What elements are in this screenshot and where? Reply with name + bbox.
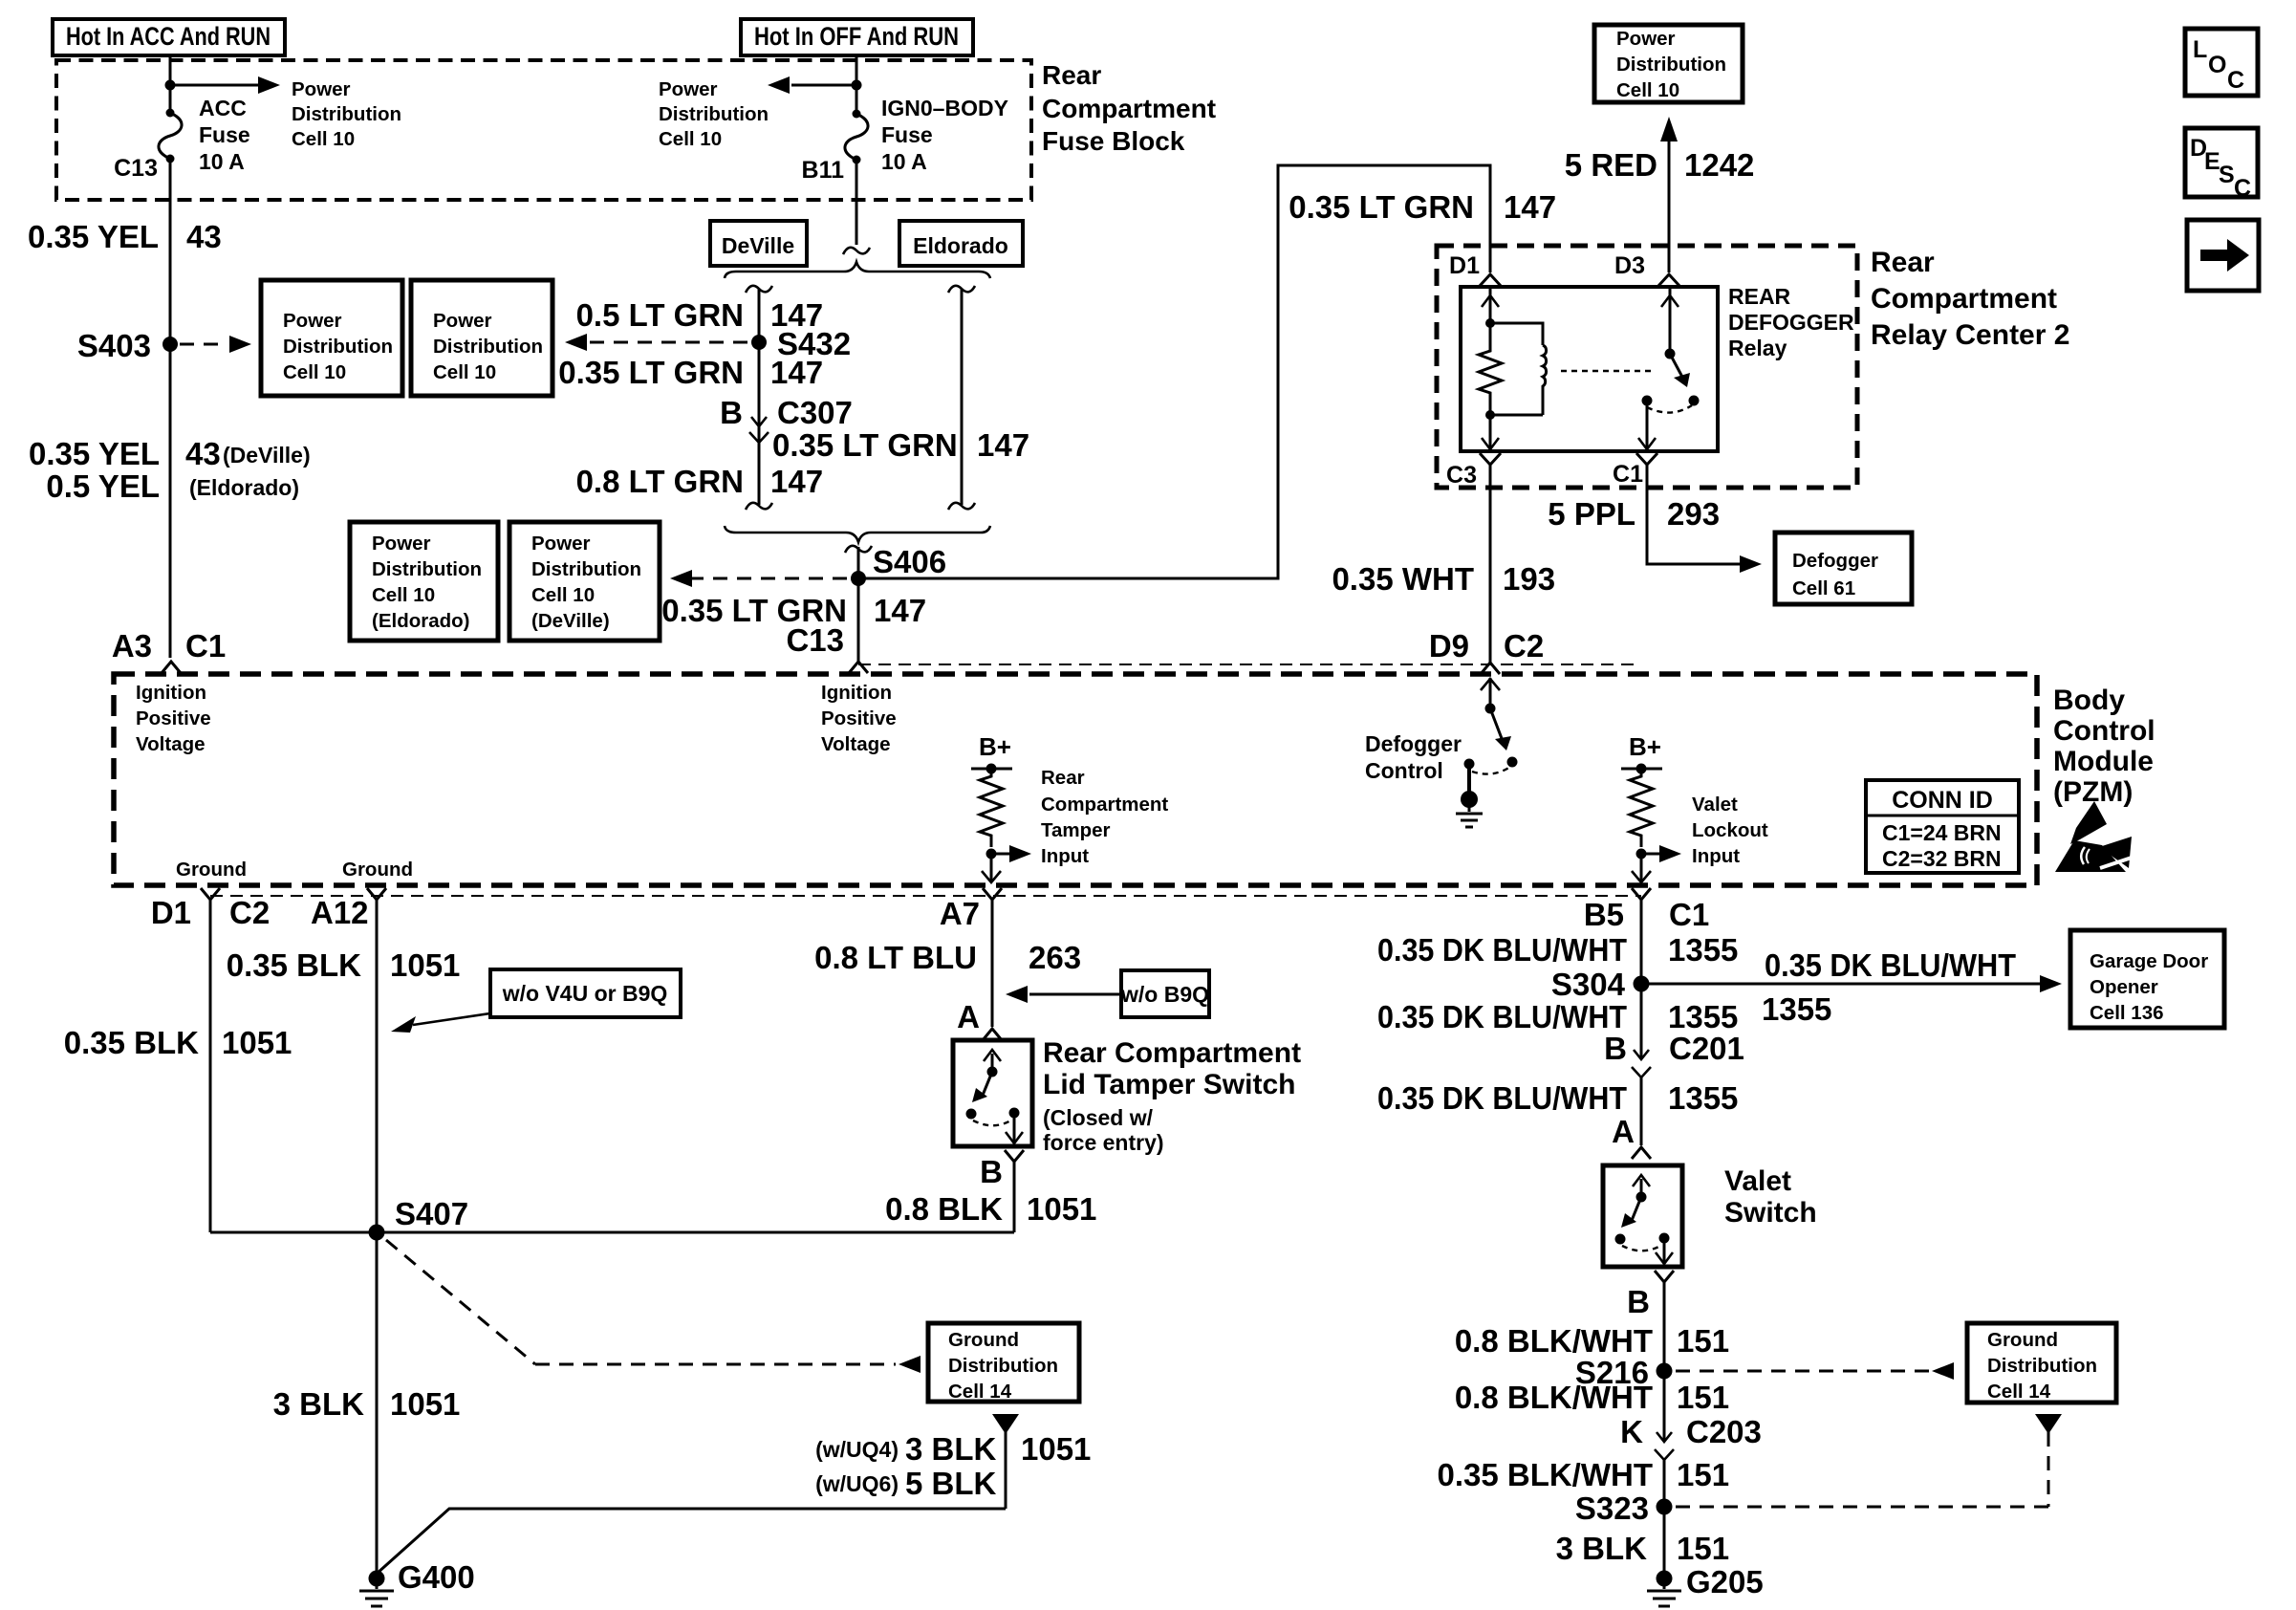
- forward arrow legend box: [2187, 220, 2259, 291]
- reference box: Ground Distribution Cell 14 (right): [1967, 1323, 2116, 1403]
- label box: DeVille: [710, 221, 807, 266]
- svg-text:Distribution: Distribution: [1616, 54, 1726, 76]
- switch: Valet Switch box: [1603, 1165, 1682, 1267]
- svg-text:Cell 10: Cell 10: [659, 128, 722, 150]
- svg-text:0.35 LT GRN: 0.35 LT GRN: [772, 427, 958, 463]
- net B+ (valet lockout pull-up): [1621, 732, 1662, 774]
- wire label: 0.35 WHT 193: [1332, 561, 1555, 597]
- ground G400: [359, 1559, 475, 1606]
- svg-text:Cell 61: Cell 61: [1792, 577, 1855, 599]
- svg-text:Voltage: Voltage: [136, 733, 206, 755]
- node S432: [751, 326, 851, 361]
- svg-text:S403: S403: [77, 328, 151, 363]
- svg-text:D3: D3: [1614, 252, 1645, 279]
- pin labels D9 / C2 at BCM: [1429, 628, 1544, 664]
- svg-text:Cell 10: Cell 10: [1616, 79, 1679, 101]
- pin symbol A7 (BCM tamper input): [983, 888, 1002, 900]
- svg-text:w/o B9Q: w/o B9Q: [1120, 982, 1209, 1007]
- svg-text:C307: C307: [777, 395, 853, 430]
- svg-text:D1: D1: [1449, 252, 1480, 279]
- svg-text:Defogger: Defogger: [1365, 731, 1462, 756]
- svg-text:1355: 1355: [1668, 1080, 1738, 1116]
- wire: brace cusp down to S406: [845, 546, 872, 578]
- wire label: 0.8 LT BLU 263: [814, 940, 1081, 975]
- node S403: [77, 328, 178, 363]
- svg-text:K: K: [1620, 1414, 1643, 1449]
- svg-text:Power: Power: [283, 310, 342, 332]
- svg-text:Ground: Ground: [176, 859, 247, 881]
- label box: Hot In OFF And RUN: [741, 19, 973, 55]
- svg-text:43: 43: [186, 219, 222, 254]
- ground symbol (defogger control): [1456, 764, 1483, 827]
- svg-text:0.5 LT GRN: 0.5 LT GRN: [576, 297, 744, 333]
- svg-text:Cell 10: Cell 10: [531, 584, 595, 606]
- svg-text:0.8 BLK/WHT: 0.8 BLK/WHT: [1455, 1323, 1653, 1359]
- wire: circuit 147 from S406 to relay coil D1: [858, 165, 1490, 578]
- wire label: 0.35 BLK 1051 (D1/C2): [64, 1025, 292, 1060]
- svg-text:Rear: Rear: [1871, 247, 1935, 278]
- wire: circuit 151 from valet B to S216: [1663, 1282, 1666, 1419]
- svg-text:1355: 1355: [1762, 991, 1831, 1027]
- svg-text:Distribution: Distribution: [283, 336, 393, 358]
- junction node above ACC fuse: [165, 80, 176, 91]
- svg-text:Cell 10: Cell 10: [433, 361, 496, 383]
- svg-text:3 BLK: 3 BLK: [1556, 1531, 1648, 1566]
- pin D3 of relay: [1614, 252, 1679, 286]
- reference box: Power Distribution Cell 10 (top right): [1594, 25, 1743, 102]
- svg-text:0.35 YEL: 0.35 YEL: [28, 219, 159, 254]
- svg-text:Garage Door: Garage Door: [2090, 950, 2208, 972]
- svg-text:Distribution: Distribution: [1987, 1355, 2097, 1377]
- wire: circuit 1355 branch to Garage Door Opener with arrow: [1641, 975, 2062, 992]
- svg-text:w/o V4U or B9Q: w/o V4U or B9Q: [502, 981, 668, 1006]
- svg-text:Compartment: Compartment: [1042, 94, 1216, 123]
- fuse ACC 10 A: [159, 109, 182, 163]
- svg-text:Distribution: Distribution: [948, 1355, 1058, 1377]
- wire: dashed reference from S407 to Ground Distribution Cell 14: [386, 1240, 921, 1373]
- wire label: (w/UQ6) 5 BLK: [815, 1466, 996, 1501]
- svg-text:151: 151: [1677, 1531, 1729, 1566]
- svg-text:Control: Control: [1365, 758, 1443, 783]
- wire: Hot In ACC feed into fuse block: [169, 55, 172, 85]
- relay resistor R1: [1479, 323, 1502, 415]
- svg-text:Power: Power: [531, 533, 591, 555]
- svg-text:0.8 BLK/WHT: 0.8 BLK/WHT: [1455, 1380, 1653, 1415]
- svg-text:0.35 LT GRN: 0.35 LT GRN: [558, 355, 744, 390]
- svg-text:Input: Input: [1041, 845, 1089, 867]
- svg-text:Ground: Ground: [948, 1329, 1019, 1351]
- svg-text:(DeVille): (DeVille): [531, 610, 610, 632]
- switch: Rear Compartment Lid Tamper Switch box: [953, 1040, 1032, 1146]
- svg-text:D1: D1: [151, 895, 191, 930]
- svg-text:3 BLK: 3 BLK: [905, 1431, 997, 1467]
- wire: circuit 1355 from B5 to S304: [1640, 900, 1643, 984]
- connector boundary dashed line (top, C1/C2): [858, 664, 1641, 665]
- svg-text:263: 263: [1029, 940, 1081, 975]
- svg-text:G205: G205: [1686, 1564, 1764, 1599]
- svg-text:Compartment: Compartment: [1041, 794, 1168, 816]
- svg-text:151: 151: [1677, 1457, 1729, 1492]
- svg-text:G400: G400: [398, 1559, 475, 1595]
- svg-text:C13: C13: [786, 622, 844, 658]
- svg-text:Positive: Positive: [136, 707, 211, 729]
- svg-text:Opener: Opener: [2090, 976, 2158, 998]
- svg-text:Input: Input: [1692, 845, 1740, 867]
- svg-text:Relay Center 2: Relay Center 2: [1871, 319, 2069, 351]
- wire label: 3 BLK 1051: [273, 1386, 461, 1422]
- wire: S406 down to BCM pin C13: [857, 578, 860, 662]
- reference box: Ground Distribution Cell 14 (left): [928, 1323, 1079, 1403]
- svg-text:REAR: REAR: [1728, 284, 1791, 309]
- svg-text:193: 193: [1503, 561, 1555, 597]
- pin symbol C13: [849, 662, 868, 673]
- svg-text:C2: C2: [229, 895, 270, 930]
- svg-text:C1=24 BRN: C1=24 BRN: [1882, 820, 2002, 845]
- wire: dashed reference arrow from S432 to Power Distribution box: [565, 334, 747, 351]
- wire label: 0.8 LT GRN 147: [576, 464, 823, 499]
- svg-text:C3: C3: [1446, 462, 1477, 489]
- pin symbol A (valet switch): [1632, 1147, 1651, 1159]
- svg-text:C13: C13: [114, 155, 158, 182]
- svg-text:0.8 LT GRN: 0.8 LT GRN: [576, 464, 744, 499]
- svg-text:Fuse: Fuse: [199, 122, 250, 147]
- node: tamper input tap: [986, 849, 997, 859]
- svg-text:(DeVille): (DeVille): [223, 443, 311, 468]
- relay contact: common from D3: [1661, 289, 1679, 359]
- wire label: (w/UQ4) 3 BLK 1051: [815, 1431, 1091, 1467]
- svg-text:Rear: Rear: [1042, 60, 1101, 90]
- svg-text:1355: 1355: [1668, 932, 1738, 968]
- wire label: 0.35 LT GRN 147: [558, 355, 823, 390]
- svg-text:151: 151: [1677, 1323, 1729, 1359]
- wire: arrow from Ground Distribution box down to UQ4/UQ6 ground lead: [377, 1414, 1019, 1574]
- svg-text:Power: Power: [292, 78, 351, 100]
- relay K1 REAR DEFOGGER Relay box: [1461, 287, 1718, 451]
- wire label: 0.35 BLK/WHT 151: [1437, 1457, 1729, 1492]
- svg-text:1242: 1242: [1684, 147, 1754, 183]
- connector boundary dashed line (bottom): [210, 895, 1641, 897]
- wire: coil top branch: [1490, 323, 1543, 345]
- svg-text:B: B: [720, 395, 743, 430]
- relay contact: normally open terminal to C1: [1638, 396, 1700, 450]
- svg-text:0.5 YEL: 0.5 YEL: [46, 468, 160, 504]
- lid tamper switch internals: [966, 1050, 1024, 1143]
- svg-text:Power: Power: [659, 78, 718, 100]
- wire label: 0.8 BLK/WHT 151: [1455, 1323, 1729, 1359]
- svg-text:Relay: Relay: [1728, 336, 1787, 360]
- wire: ground circuit 1051 from A12: [376, 900, 379, 1577]
- svg-text:B+: B+: [979, 732, 1011, 761]
- connector C201 pin B: [1604, 1031, 1744, 1145]
- wire: circuit 263 from A7 to lid tamper switch: [991, 900, 994, 1027]
- svg-text:Module: Module: [2053, 746, 2154, 777]
- label: Rear Compartment Relay Center 2: [1871, 247, 2069, 351]
- svg-text:147: 147: [977, 427, 1029, 463]
- svg-text:B+: B+: [1629, 732, 1661, 761]
- wire: circuit 1355 from S304 to C201: [1640, 984, 1643, 1036]
- svg-text:Body: Body: [2053, 685, 2125, 716]
- label: Rear Compartment Lid Tamper Switch (Closed w/ force entry): [1043, 1037, 1301, 1155]
- wire label: 0.5 LT GRN 147: [576, 297, 823, 333]
- svg-text:Power: Power: [433, 310, 492, 332]
- svg-text:Ignition: Ignition: [821, 682, 892, 704]
- defogger control switch (BCM internal): [1464, 678, 1518, 774]
- wire: arrow to Power Distribution Cell 10 (right feed): [768, 76, 856, 94]
- svg-text:force entry): force entry): [1043, 1130, 1164, 1155]
- brace: merge of branches into S406: [725, 526, 990, 542]
- svg-text:Lockout: Lockout: [1692, 819, 1768, 841]
- wire: dashed reference from S216 to Ground Distribution Cell 14 (right): [1676, 1362, 1954, 1380]
- label: Valet Switch: [1724, 1165, 1817, 1229]
- wire label: 0.5 YEL (Eldorado): [46, 468, 299, 504]
- svg-text:Distribution: Distribution: [531, 558, 641, 580]
- svg-text:C1: C1: [1669, 897, 1709, 932]
- svg-text:Ground: Ground: [342, 859, 413, 881]
- wire label: 0.8 BLK 1051: [885, 1191, 1096, 1227]
- pin symbol A3/C1: [162, 662, 181, 673]
- wire break squiggle at B11 branch: [843, 248, 870, 254]
- svg-text:Rear: Rear: [1041, 767, 1085, 789]
- svg-text:43: 43: [185, 436, 221, 471]
- svg-text:0.35 BLK/WHT: 0.35 BLK/WHT: [1437, 1457, 1653, 1492]
- svg-text:C201: C201: [1669, 1031, 1744, 1066]
- svg-text:ACC: ACC: [199, 96, 247, 120]
- wire: circuit 1051 from lid tamper B to S407: [1013, 1162, 1016, 1232]
- svg-text:D9: D9: [1429, 628, 1469, 664]
- net B+ (tamper pull-up): [971, 732, 1012, 774]
- svg-text:C1: C1: [185, 628, 226, 664]
- pin D1 of relay: [1449, 252, 1501, 286]
- pin labels B5 / C1: [1584, 897, 1709, 932]
- svg-text:(Closed w/: (Closed w/: [1043, 1105, 1154, 1130]
- wire: circuit 293 from relay C1 to Defogger cell with arrow: [1647, 465, 1762, 573]
- wire label: 0.35 BLK 1051 (A12): [227, 947, 461, 983]
- svg-text:A7: A7: [940, 896, 980, 931]
- label box: Eldorado: [899, 221, 1023, 266]
- label: Ignition Positive Voltage (middle): [821, 682, 897, 755]
- svg-text:0.35 BLK: 0.35 BLK: [64, 1025, 199, 1060]
- wire: DeVille branch (left) of circuit 147: [746, 286, 772, 510]
- wire label: 0.35 YEL 43 (DeVille): [29, 436, 311, 471]
- LOC legend box: [2185, 29, 2258, 96]
- wire: circuit 43 from fuse C13 down to BCM pin A3/C1: [169, 159, 172, 658]
- resistor: rear compartment tamper pull-up: [980, 769, 1003, 847]
- svg-text:Cell 136: Cell 136: [2090, 1002, 2164, 1024]
- reference box: Power Distribution Cell 10 (first): [261, 280, 402, 396]
- wire label: 0.35 DK BLU/WHT 1355 (below C201): [1377, 1080, 1738, 1116]
- svg-text:10 A: 10 A: [881, 149, 927, 174]
- svg-text:Distribution: Distribution: [292, 103, 401, 125]
- connector C203 pin K: [1620, 1414, 1762, 1507]
- label: Power Distribution Cell 10 (top middle): [659, 78, 769, 150]
- wire label: 0.35 YEL 43: [28, 219, 222, 254]
- svg-text:Compartment: Compartment: [1871, 283, 2057, 315]
- svg-text:147: 147: [770, 355, 823, 390]
- svg-text:293: 293: [1667, 496, 1720, 532]
- pin symbol D9/C2: [1481, 663, 1500, 674]
- pin symbol A12 (BCM ground output): [367, 888, 386, 900]
- node: valet lockout tap: [1636, 849, 1647, 859]
- ESD sensitivity symbol: [2055, 801, 2134, 872]
- pin symbol B5/C1 (BCM valet input): [1632, 888, 1651, 900]
- svg-text:A3: A3: [112, 628, 152, 664]
- svg-text:S406: S406: [873, 544, 946, 579]
- pin C3 of relay: [1446, 453, 1501, 489]
- wire: Hot In OFF feed into fuse block: [856, 55, 858, 85]
- label: Rear Compartment Tamper Input: [1041, 767, 1168, 867]
- svg-text:Lid Tamper Switch: Lid Tamper Switch: [1043, 1069, 1295, 1100]
- reference box: Power Distribution Cell 10 (Eldorado): [350, 522, 498, 641]
- pin symbol B (valet switch): [1655, 1271, 1674, 1282]
- svg-text:L: L: [2193, 36, 2207, 63]
- label: Power Distribution Cell 10 (top left): [292, 78, 401, 150]
- node S304: [1551, 967, 1650, 1002]
- svg-text:147: 147: [1504, 189, 1556, 225]
- DESC legend box: [2185, 128, 2258, 202]
- wire: Eldorado branch (right) of circuit 147: [948, 286, 975, 510]
- svg-text:1051: 1051: [390, 1386, 460, 1422]
- svg-text:Tamper: Tamper: [1041, 819, 1111, 841]
- Rear Compartment Fuse Block dashed enclosure: [56, 60, 1031, 200]
- svg-text:A: A: [957, 999, 980, 1034]
- wire: circuit 193 from relay C3 down to BCM pin D9/C2: [1489, 465, 1492, 663]
- relay coil input wire with arrow: [1482, 289, 1499, 323]
- svg-text:0.35 LT GRN: 0.35 LT GRN: [1289, 189, 1474, 225]
- svg-text:Power: Power: [372, 533, 431, 555]
- wire: dashed reference from S323 up to Ground Distribution (right): [1676, 1414, 2062, 1507]
- svg-text:B: B: [980, 1154, 1003, 1189]
- svg-text:151: 151: [1677, 1380, 1729, 1415]
- relay contact arm (movable): [1670, 354, 1690, 387]
- svg-text:1355: 1355: [1668, 999, 1738, 1034]
- node S323: [1575, 1490, 1673, 1526]
- wire: ground bus to S407: [210, 1231, 1014, 1234]
- brace: split of circuit 147 into two branches: [725, 262, 990, 278]
- svg-text:B5: B5: [1584, 897, 1624, 932]
- pin symbol B (lid tamper switch): [1005, 1150, 1024, 1162]
- svg-text:Control: Control: [2053, 715, 2155, 747]
- svg-text:Defogger: Defogger: [1792, 550, 1878, 572]
- wire: ground circuit 1051 from D1/C2: [209, 900, 212, 1232]
- svg-text:O: O: [2208, 52, 2226, 78]
- svg-text:Ignition: Ignition: [136, 682, 206, 704]
- svg-text:Cell 14: Cell 14: [948, 1381, 1012, 1403]
- wire: junction to ACC fuse: [169, 85, 172, 113]
- svg-text:0.8 LT BLU: 0.8 LT BLU: [814, 940, 977, 975]
- svg-text:Ground: Ground: [1987, 1329, 2058, 1351]
- wire: circuit 1242 with arrow up to Power Distribution: [1660, 117, 1678, 272]
- svg-text:Eldorado: Eldorado: [913, 233, 1008, 258]
- reference box: Defogger Cell 61: [1775, 533, 1912, 604]
- wire label: 0.35 LT GRN 147 (at S406): [661, 593, 926, 628]
- svg-text:0.35 DK BLU/WHT: 0.35 DK BLU/WHT: [1377, 999, 1627, 1034]
- svg-text:5 BLK: 5 BLK: [905, 1466, 997, 1501]
- svg-text:147: 147: [874, 593, 926, 628]
- Rear Compartment Relay Center 2 dashed enclosure: [1437, 246, 1857, 488]
- svg-text:0.35 DK BLU/WHT: 0.35 DK BLU/WHT: [1765, 947, 2016, 983]
- label: Rear Compartment Fuse Block: [1042, 60, 1216, 156]
- svg-text:Switch: Switch: [1724, 1197, 1817, 1229]
- wire label: 0.8 BLK/WHT 151 (below S216): [1455, 1380, 1729, 1415]
- svg-text:1051: 1051: [390, 947, 460, 983]
- svg-text:S407: S407: [395, 1196, 468, 1231]
- svg-text:0.35 YEL: 0.35 YEL: [29, 436, 160, 471]
- svg-text:DeVille: DeVille: [722, 233, 794, 258]
- wire label: 5 PPL 293: [1548, 496, 1720, 532]
- wire: pointer arrow from w/o V4U or B9Q to A12 wire: [391, 1013, 490, 1033]
- svg-text:Hot In OFF And RUN: Hot In OFF And RUN: [754, 22, 959, 51]
- wire: dashed reference arrow from S406 to Power Distribution Cell 10 (DeVille): [670, 570, 847, 587]
- svg-text:Cell 10: Cell 10: [283, 361, 346, 383]
- svg-text:A12: A12: [311, 895, 369, 930]
- fuse IGN0-BODY 10 A: [845, 85, 868, 164]
- svg-text:Cell 10: Cell 10: [372, 584, 435, 606]
- label: Defogger Control: [1365, 731, 1462, 783]
- wire: arrow to tamper input: [991, 845, 1031, 862]
- svg-text:B: B: [1604, 1031, 1627, 1066]
- svg-text:Hot In ACC And RUN: Hot In ACC And RUN: [66, 22, 271, 51]
- svg-text:IGN0–BODY: IGN0–BODY: [881, 96, 1008, 120]
- reference box: w/o B9Q: [1120, 970, 1209, 1017]
- svg-text:Voltage: Voltage: [821, 733, 891, 755]
- svg-text:0.35 WHT: 0.35 WHT: [1332, 561, 1474, 597]
- svg-text:Valet: Valet: [1724, 1165, 1791, 1197]
- svg-text:DEFOGGER: DEFOGGER: [1728, 310, 1854, 335]
- reference box: Power Distribution Cell 10 (second): [411, 280, 552, 396]
- svg-text:CONN ID: CONN ID: [1892, 787, 1993, 814]
- svg-text:C2: C2: [1504, 628, 1544, 664]
- CONN ID table: [1866, 780, 2019, 873]
- wire: circuit 151 from S323 to G205: [1663, 1507, 1666, 1578]
- svg-text:0.35 DK BLU/WHT: 0.35 DK BLU/WHT: [1377, 932, 1627, 968]
- svg-text:Positive: Positive: [821, 707, 897, 729]
- svg-text:(Eldorado): (Eldorado): [372, 610, 470, 632]
- connector C307 pin B: [720, 395, 853, 504]
- relay coil L1: [1543, 345, 1547, 415]
- Body Control Module dashed enclosure: [114, 674, 2037, 885]
- svg-text:1051: 1051: [1021, 1431, 1091, 1467]
- svg-text:C: C: [2227, 67, 2244, 94]
- svg-text:C2=32 BRN: C2=32 BRN: [1882, 846, 2002, 871]
- dashed actuation link from coil to contact arm: [1561, 370, 1656, 372]
- svg-text:(Eldorado): (Eldorado): [189, 475, 299, 500]
- svg-text:Cell 14: Cell 14: [1987, 1381, 2051, 1403]
- wire label: 5 RED 1242: [1565, 147, 1755, 183]
- valet switch internals: [1615, 1175, 1674, 1264]
- svg-text:3 BLK: 3 BLK: [273, 1386, 365, 1422]
- svg-text:C1: C1: [1613, 461, 1643, 488]
- wire: B11 down to split: [856, 160, 858, 245]
- pin labels D1 / C2: [151, 895, 270, 930]
- relay internal node (coil bottom): [1485, 410, 1495, 420]
- svg-text:Fuse Block: Fuse Block: [1042, 126, 1185, 156]
- svg-text:1051: 1051: [1027, 1191, 1096, 1227]
- reference box: Garage Door Opener Cell 136: [2070, 930, 2224, 1028]
- svg-text:Power: Power: [1616, 28, 1676, 50]
- label: Ignition Positive Voltage (left): [136, 682, 211, 755]
- wire: valet lockout to pin B5 with arrow: [1632, 854, 1651, 882]
- label: Valet Lockout Input: [1692, 794, 1768, 867]
- wire label: 3 BLK 151: [1556, 1531, 1729, 1566]
- svg-text:Fuse: Fuse: [881, 122, 933, 147]
- wire label: 0.35 DK BLU/WHT 1355: [1377, 932, 1738, 968]
- node S407: [369, 1196, 469, 1241]
- pin symbol A (lid tamper switch): [983, 1029, 1002, 1040]
- label: Body Control Module (PZM): [2053, 685, 2155, 808]
- wire label: 0.35 DK BLU/WHT 1355 (below S304): [1377, 999, 1738, 1034]
- svg-text:C203: C203: [1686, 1414, 1762, 1449]
- svg-text:S304: S304: [1551, 967, 1626, 1002]
